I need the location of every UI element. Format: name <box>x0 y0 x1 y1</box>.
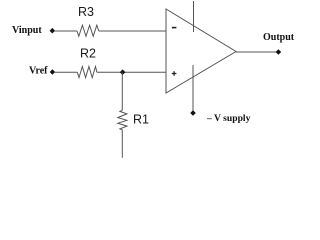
svg-text:R1: R1 <box>133 112 149 126</box>
positive supply line <box>193 1 195 32</box>
wire R1 bottom lead <box>121 130 123 158</box>
op-amp inverting input minus sign <box>172 27 177 29</box>
svg-text:Vref: Vref <box>29 65 48 76</box>
wire Vinput to R3 <box>55 30 78 32</box>
svg-text:R3: R3 <box>78 5 94 19</box>
wire Vref to R2 <box>55 71 78 73</box>
wire R2 to non-inverting input <box>97 71 166 73</box>
wire R3 to inverting input <box>99 30 166 32</box>
svg-text:Output: Output <box>263 32 295 43</box>
negative supply line <box>192 65 194 111</box>
resistor R2 <box>77 67 97 78</box>
node Vinput terminal dot <box>50 28 55 34</box>
resistor R3 <box>77 25 99 36</box>
wire output <box>236 51 277 53</box>
junction node at R1 top <box>120 69 126 75</box>
wire junction down to R1 <box>121 72 123 110</box>
svg-text:– V supply: – V supply <box>206 113 251 124</box>
svg-text:R2: R2 <box>80 46 96 60</box>
resistor R1 <box>118 110 127 130</box>
node Vref terminal dot <box>50 69 55 75</box>
node Output terminal dot <box>276 49 282 55</box>
negative supply terminal dot <box>190 110 196 116</box>
op-amp non-inverting input plus sign <box>172 71 177 76</box>
svg-text:Vinput: Vinput <box>12 25 42 36</box>
op-amp U1 triangle <box>166 9 236 93</box>
